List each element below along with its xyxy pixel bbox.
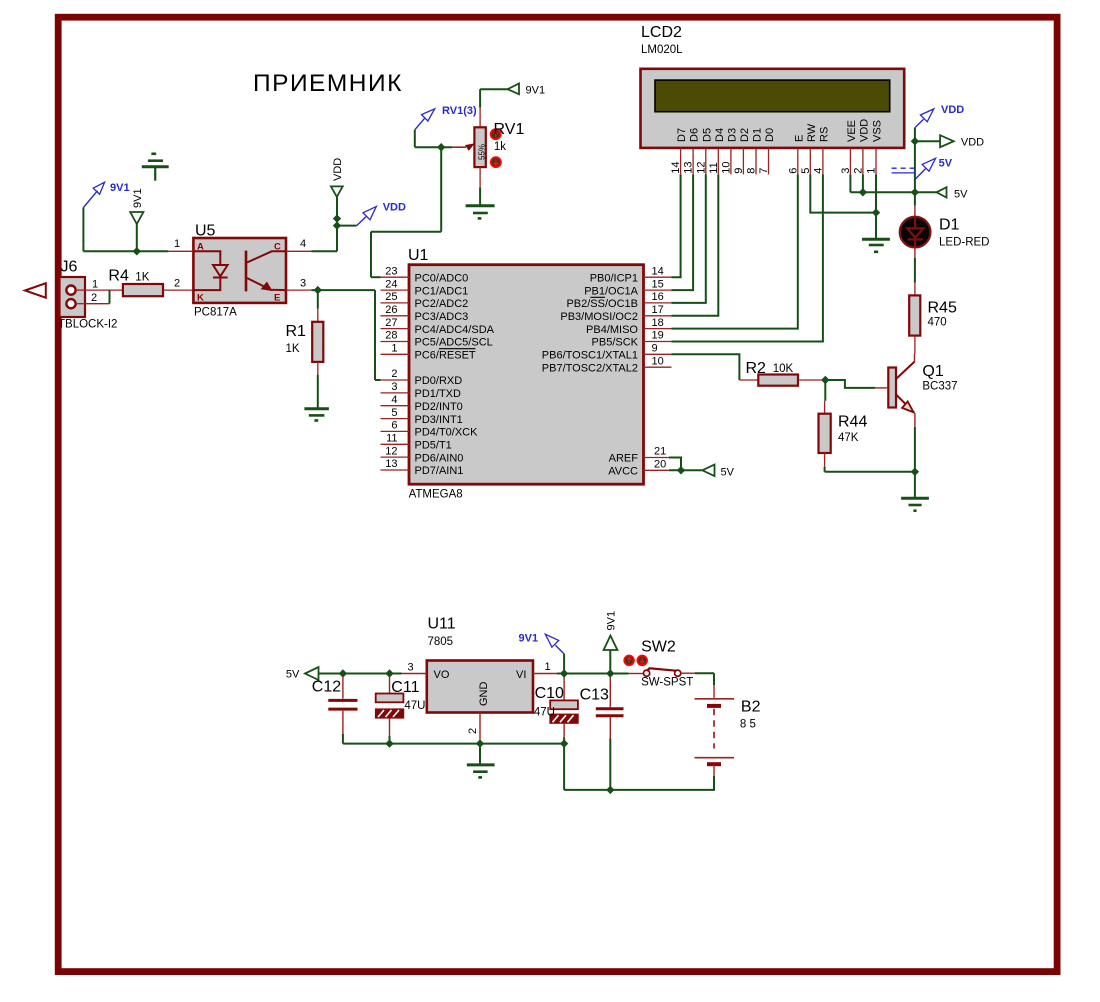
wire LCD D4 to U1 pin17 (672, 174, 719, 315)
svg-text:1: 1 (174, 238, 180, 250)
svg-text:PB6/TOSC1/XTAL1: PB6/TOSC1/XTAL1 (542, 350, 638, 362)
svg-text:9V1: 9V1 (606, 611, 618, 631)
svg-text:RV1: RV1 (494, 121, 525, 138)
svg-text:D4: D4 (714, 128, 726, 142)
svg-text:2: 2 (852, 168, 864, 174)
power flag 9V1 (left arrow, top) (508, 84, 546, 97)
svg-text:D5: D5 (701, 128, 713, 142)
transistor Q1 BC337 (875, 354, 958, 427)
svg-text:K: K (197, 293, 204, 304)
wire D1 to R45 (914, 258, 916, 283)
wire LCD VEE/VDD to 5V rail (850, 174, 915, 192)
svg-text:PC2/ADC2: PC2/ADC2 (415, 298, 469, 310)
potentiometer RV1 1k (452, 108, 524, 188)
junction VDD column (859, 188, 867, 196)
svg-text:13: 13 (683, 161, 695, 173)
svg-text:23: 23 (385, 265, 397, 277)
junction emitter rail (911, 468, 919, 476)
wire LCD RS to U1 pin19 (672, 174, 823, 341)
svg-text:PC3/ADC3: PC3/ADC3 (415, 311, 469, 323)
RV1 buttons (491, 129, 501, 139)
LCD pin numbers (670, 161, 877, 173)
wire AREF/AVCC to 5V (669, 458, 702, 471)
svg-text:RV1(3): RV1(3) (442, 105, 477, 117)
switch SW2 SW-SPST (624, 639, 695, 689)
svg-text:U5: U5 (195, 223, 216, 240)
svg-text:2: 2 (174, 278, 180, 290)
power flag VDD (right arrow) (915, 135, 984, 149)
svg-text:PB7/TOSC2/XTAL2: PB7/TOSC2/XTAL2 (542, 362, 638, 374)
blue probe 5V (dashed) (892, 158, 953, 180)
svg-text:E: E (793, 135, 805, 142)
wire LCD RW to ground node (810, 174, 876, 212)
svg-text:24: 24 (385, 278, 397, 290)
svg-text:Q1: Q1 (922, 363, 943, 380)
svg-text:1K: 1K (135, 271, 149, 283)
svg-text:9: 9 (733, 168, 745, 174)
junction AVCC (677, 466, 685, 474)
microcontroller U1 ATMEGA8 (381, 247, 672, 501)
svg-text:D0: D0 (764, 128, 776, 142)
svg-text:VDD: VDD (941, 104, 964, 116)
svg-text:10K: 10K (773, 363, 794, 375)
svg-text:8: 8 (746, 168, 758, 174)
svg-text:C10: C10 (535, 685, 564, 702)
wire GND pin to ground (479, 744, 481, 764)
svg-text:28: 28 (385, 330, 397, 342)
svg-text:PC4/ADC4/SDA: PC4/ADC4/SDA (415, 324, 495, 336)
svg-text:26: 26 (385, 304, 397, 316)
wire emitter/R44 to ground rail (825, 427, 915, 497)
svg-text:C12: C12 (312, 679, 341, 696)
svg-text:VDD: VDD (961, 137, 984, 149)
power flag 9V1 (down arrow) (130, 188, 144, 251)
svg-text:16: 16 (652, 291, 664, 303)
svg-text:14: 14 (670, 161, 682, 173)
svg-text:5V: 5V (721, 467, 735, 479)
wire VDD column (D1 anode rail) (914, 128, 916, 206)
svg-text:LM020L: LM020L (641, 44, 683, 56)
svg-text:D2: D2 (739, 128, 751, 142)
svg-text:1: 1 (92, 279, 98, 291)
resistor R4 1K (108, 267, 193, 296)
wire J6 pin1 to R4 (85, 289, 123, 291)
wire LCD D5 to U1 pin16 (672, 174, 706, 303)
svg-text:D7: D7 (676, 128, 688, 142)
wire LCD D6 to U1 pin15 (672, 174, 694, 290)
svg-text:VDD: VDD (858, 119, 870, 142)
svg-text:TBLOCK-I2: TBLOCK-I2 (58, 319, 117, 331)
junction C12 top (339, 669, 347, 677)
svg-text:10: 10 (652, 355, 664, 367)
svg-text:4: 4 (391, 394, 397, 406)
svg-text:7805: 7805 (428, 636, 454, 648)
junction 5V rail (911, 188, 919, 196)
svg-text:B2: B2 (741, 699, 761, 716)
svg-text:5V: 5V (954, 188, 968, 200)
svg-text:PD4/T0/XCK: PD4/T0/XCK (415, 427, 479, 439)
svg-text:47U: 47U (404, 700, 425, 712)
svg-text:U1: U1 (408, 247, 429, 264)
svg-text:11: 11 (386, 433, 397, 445)
wire U1 pin9 to R2 (672, 354, 740, 380)
svg-text:4: 4 (300, 238, 306, 250)
svg-text:1: 1 (866, 168, 878, 174)
wire 9V1 to U5 pin1 (83, 208, 168, 252)
svg-text:27: 27 (385, 317, 397, 329)
wire U5 pin3 to R1 / U1 pin2 (312, 290, 381, 380)
svg-text:C11: C11 (391, 679, 419, 696)
svg-text:17: 17 (652, 304, 664, 316)
svg-text:20: 20 (654, 459, 666, 471)
svg-text:9: 9 (652, 343, 658, 355)
wire 5V output rail (319, 673, 402, 675)
junction R2/R44/base (821, 376, 829, 384)
svg-text:1: 1 (391, 343, 397, 355)
svg-text:ATMEGA8: ATMEGA8 (409, 489, 463, 501)
blue probe VDD (356, 202, 406, 226)
power flag 9V1 (up arrow, bottom) (604, 611, 618, 674)
ground (below RV1) (466, 206, 495, 219)
resistor R2 10K (739, 360, 825, 386)
wire R2 to Q1 base (825, 380, 875, 388)
svg-text:C13: C13 (580, 687, 609, 704)
capacitor C12 (312, 676, 358, 744)
svg-text:PC0/ADC0: PC0/ADC0 (415, 272, 469, 284)
ground (below R1) (304, 409, 329, 421)
LCD display LCD2 LM020L (641, 24, 905, 174)
svg-text:AVCC: AVCC (608, 466, 638, 478)
svg-text:PD3/INT1: PD3/INT1 (415, 414, 463, 426)
svg-text:1K: 1K (286, 343, 300, 355)
svg-text:LED-RED: LED-RED (939, 237, 989, 249)
wire 9V1 flag to RV1 top (480, 89, 507, 107)
svg-text:3: 3 (300, 278, 306, 290)
junction VDD flag (911, 137, 919, 145)
wire U5 pin4 to VDD (312, 197, 357, 252)
battery B2 (695, 685, 761, 776)
svg-text:10: 10 (720, 161, 732, 173)
svg-text:6: 6 (787, 168, 799, 174)
svg-text:PC5/ADC5/SCL: PC5/ADC5/SCL (415, 337, 493, 349)
junction RV1 wiper (437, 143, 445, 151)
svg-text:PB4/MISO: PB4/MISO (586, 324, 638, 336)
svg-text:SW2: SW2 (641, 639, 676, 656)
ground rail (bottom) (343, 744, 564, 790)
svg-text:PB0/ICP1: PB0/ICP1 (590, 272, 638, 284)
svg-text:D1: D1 (939, 217, 960, 234)
blue probe 9V1 (bottom) (519, 633, 565, 654)
svg-text:47U: 47U (534, 707, 555, 719)
LCD pin names (676, 119, 883, 142)
svg-text:1: 1 (545, 661, 551, 673)
svg-text:RW: RW (806, 123, 818, 142)
svg-text:VDD: VDD (332, 158, 344, 181)
svg-text:ПРИЕМНИК: ПРИЕМНИК (253, 70, 403, 97)
junction U5 pin3/R1 (314, 286, 322, 294)
power flag VDD (down arrow) (331, 158, 344, 197)
blue probe 9V1 (top-left) (83, 182, 129, 208)
svg-text:D6: D6 (689, 128, 701, 142)
capacitor C11 47U (electrolytic) (376, 676, 426, 744)
svg-text:LCD2: LCD2 (641, 24, 682, 41)
svg-text:VEE: VEE (846, 120, 858, 142)
svg-text:5: 5 (391, 407, 397, 419)
svg-text:19: 19 (652, 330, 664, 342)
svg-text:PD6/AIN0: PD6/AIN0 (415, 452, 464, 464)
svg-text:8 5: 8 5 (740, 719, 756, 731)
svg-text:18: 18 (652, 317, 664, 329)
svg-text:5: 5 (800, 168, 812, 174)
svg-text:J6: J6 (61, 259, 78, 276)
wire battery to bottom rail (564, 776, 714, 790)
svg-text:9V1: 9V1 (519, 633, 539, 645)
svg-text:4: 4 (812, 168, 824, 174)
svg-text:VO: VO (434, 669, 450, 681)
svg-text:6: 6 (391, 420, 397, 432)
svg-text:BC337: BC337 (922, 380, 957, 392)
resistor R44 47K (819, 380, 868, 467)
power flag 5V (bottom left arrow) (286, 667, 319, 680)
svg-text:R2: R2 (746, 360, 767, 377)
LED D1 LED-RED (900, 206, 990, 259)
svg-text:PC1/ADC1: PC1/ADC1 (415, 285, 469, 297)
junction (9V1 flag / U5 pin1) (133, 247, 141, 255)
svg-text:VSS: VSS (872, 120, 884, 142)
svg-text:R4: R4 (108, 267, 129, 284)
ground (below U11) (467, 765, 495, 778)
svg-text:13: 13 (385, 458, 397, 470)
wire RV1 to ground (479, 187, 481, 205)
junction C11 top (385, 669, 393, 677)
blue probe VDD (top right) (915, 104, 964, 128)
svg-text:E: E (274, 293, 280, 304)
svg-text:PD5/T1: PD5/T1 (415, 440, 452, 452)
junction 9V flag node (606, 669, 614, 677)
svg-text:GND: GND (478, 682, 490, 707)
svg-text:2: 2 (467, 728, 479, 734)
svg-text:PB2/SS/OC1B: PB2/SS/OC1B (566, 298, 638, 310)
U5 internal LED (193, 251, 227, 290)
input terminal arrow (25, 283, 46, 298)
svg-text:PC6/RESET: PC6/RESET (415, 350, 476, 362)
svg-text:RS: RS (818, 127, 830, 142)
svg-text:25: 25 (385, 291, 397, 303)
LCD pin stubs (681, 148, 876, 175)
svg-text:PB5/SCK: PB5/SCK (592, 337, 639, 349)
svg-text:R1: R1 (286, 323, 307, 340)
junction VSS/RW (872, 208, 880, 216)
RV1 wiper arrow (452, 146, 466, 148)
wire SW2 to battery (695, 673, 714, 685)
svg-text:11: 11 (708, 162, 720, 173)
svg-text:PB3/MOSI/OC2: PB3/MOSI/OC2 (560, 311, 638, 323)
wire blue probe to VI node (563, 654, 565, 674)
svg-text:15: 15 (652, 278, 664, 290)
junction VI node (560, 669, 568, 677)
svg-text:12: 12 (385, 445, 397, 457)
svg-text:3: 3 (408, 662, 414, 674)
svg-text:PD0/RXD: PD0/RXD (415, 375, 463, 387)
wire R1 to ground (317, 375, 319, 408)
svg-text:D3: D3 (726, 128, 738, 142)
svg-text:47K: 47K (838, 432, 859, 444)
svg-text:1k: 1k (494, 141, 506, 153)
svg-text:R44: R44 (838, 414, 867, 431)
voltage regulator U11 7805 (402, 616, 558, 742)
U5 internal phototransistor (246, 251, 286, 292)
svg-text:VI: VI (516, 669, 526, 681)
svg-text:9V1: 9V1 (132, 188, 144, 208)
wire LCD VSS to ground (875, 174, 877, 239)
svg-text:55%: 55% (478, 144, 487, 160)
svg-text:SW-SPST: SW-SPST (641, 677, 693, 689)
svg-text:7: 7 (758, 168, 770, 174)
ground (inverted, near J6) (142, 154, 169, 181)
svg-text:3: 3 (840, 168, 852, 174)
svg-text:9V1: 9V1 (526, 85, 546, 97)
svg-text:12: 12 (695, 161, 707, 173)
junction C13 bottom (606, 786, 614, 794)
capacitor C10 47U (electrolytic) (534, 677, 578, 744)
svg-text:5V: 5V (286, 669, 300, 681)
junction GND pin (476, 739, 484, 747)
svg-text:VDD: VDD (383, 202, 406, 214)
resistor R45 470 (909, 283, 957, 354)
wire RV1 wiper node (371, 130, 452, 277)
blue probe RV1(3) (415, 105, 477, 130)
wire LCD D7 to U1 pin14 (672, 174, 681, 277)
svg-text:R45: R45 (928, 300, 957, 317)
power flag 5V (AVCC) (702, 465, 734, 479)
svg-text:5V: 5V (939, 158, 953, 170)
svg-text:PC817A: PC817A (194, 306, 237, 318)
svg-text:9V1: 9V1 (110, 182, 130, 194)
capacitor C13 (580, 677, 624, 790)
junction C11 bottom (385, 739, 393, 747)
wire LCD E to U1 pin18 (672, 174, 798, 328)
svg-text:2: 2 (91, 292, 97, 304)
svg-text:PD7/AIN1: PD7/AIN1 (415, 465, 464, 477)
svg-text:PB1/OC1A: PB1/OC1A (584, 285, 638, 297)
svg-text:PD2/INT0: PD2/INT0 (415, 401, 463, 413)
svg-text:AREF: AREF (609, 453, 639, 465)
svg-text:D1: D1 (752, 128, 764, 142)
wire VI to 9V rail (557, 673, 629, 675)
opto-coupler U5 PC817A (168, 223, 311, 319)
svg-text:U11: U11 (428, 616, 456, 633)
svg-text:PD1/TXD: PD1/TXD (415, 388, 462, 400)
svg-text:21: 21 (654, 446, 666, 458)
svg-text:14: 14 (652, 265, 664, 277)
svg-text:2: 2 (391, 368, 397, 380)
svg-text:470: 470 (928, 316, 947, 328)
ground (below LCD) (862, 239, 890, 252)
wire J6 pin2 riser (85, 290, 110, 304)
junction x2 on VDD riser (333, 214, 341, 222)
ground (below Q1) (901, 498, 929, 510)
connector J6 (TBLOCK-I2) (58, 259, 117, 331)
resistor R1 1K (286, 309, 324, 376)
junction C10 bottom (560, 739, 568, 747)
svg-text:3: 3 (391, 381, 397, 393)
power flag 5V (left arrow) (915, 187, 968, 200)
